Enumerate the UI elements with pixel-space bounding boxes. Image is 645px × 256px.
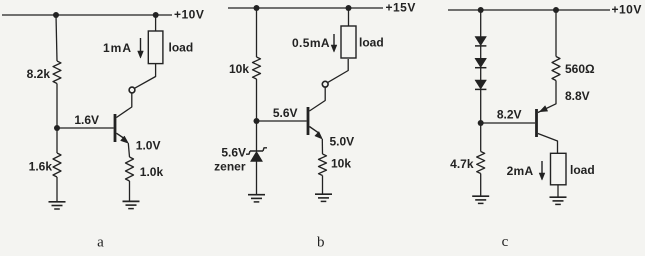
svg-text:zener: zener [214,160,246,174]
svg-text:1mA: 1mA [103,41,132,55]
svg-text:b: b [317,234,325,250]
svg-text:8.2V: 8.2V [497,108,522,122]
svg-text:5.6V: 5.6V [221,146,246,160]
svg-text:1.0V: 1.0V [136,138,161,152]
svg-text:0.5mA: 0.5mA [292,36,330,50]
svg-text:10k: 10k [229,62,249,76]
svg-text:1.0k: 1.0k [140,165,164,179]
svg-text:8.2k: 8.2k [27,67,51,81]
svg-text:c: c [502,234,509,250]
svg-text:+10V: +10V [174,7,204,21]
svg-text:560Ω: 560Ω [565,62,595,76]
svg-text:load: load [359,36,384,50]
svg-text:load: load [169,41,194,55]
svg-text:5.0V: 5.0V [330,135,355,149]
svg-text:a: a [97,235,104,251]
svg-text:5.6V: 5.6V [273,106,298,120]
svg-text:4.7k: 4.7k [450,157,474,171]
svg-text:1.6k: 1.6k [29,160,53,174]
svg-text:8.8V: 8.8V [565,89,590,103]
svg-text:2mA: 2mA [507,164,534,178]
svg-text:load: load [570,163,595,177]
svg-text:+15V: +15V [386,0,416,14]
svg-text:+10V: +10V [612,3,642,17]
svg-text:1.6V: 1.6V [74,113,99,127]
svg-text:10k: 10k [331,157,351,171]
